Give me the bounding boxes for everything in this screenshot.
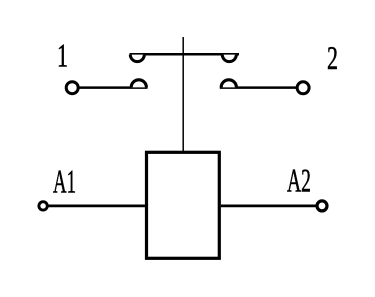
left bridge contact cup: [130, 55, 144, 62]
svg-text:1: 1: [57, 39, 68, 75]
terminal circle 1: [66, 82, 78, 94]
right bridge contact cup: [222, 55, 236, 62]
wire: right fixed contact to terminal 2: [220, 86, 297, 89]
svg-text:A1: A1: [53, 164, 76, 200]
left fixed contact hump: [131, 80, 146, 88]
svg-text:2: 2: [327, 41, 338, 77]
wire: coil box to A2: [221, 205, 317, 208]
moving bridge bar: [130, 53, 240, 56]
actuator link wire (vertical): [182, 37, 184, 153]
terminal circle A1: [39, 202, 47, 210]
svg-text:A2: A2: [287, 164, 311, 200]
wire: A1 to coil box: [48, 205, 146, 208]
right fixed contact hump: [221, 80, 236, 88]
terminal circle 2: [297, 82, 309, 94]
terminal circle A2: [317, 201, 327, 211]
wire: terminal 1 to left fixed contact: [79, 86, 148, 89]
coil box: [147, 152, 220, 258]
